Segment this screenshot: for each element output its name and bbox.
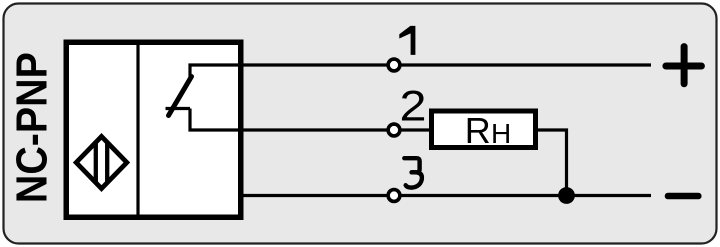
wire 3 right	[401, 194, 651, 197]
svg-text:NC-PNP: NC-PNP	[8, 52, 57, 203]
plus sign	[666, 47, 702, 84]
wire 1 left	[243, 63, 387, 66]
terminal 2	[388, 124, 400, 136]
sensor divider	[136, 42, 139, 217]
resistor RH body	[432, 111, 536, 148]
terminal 3	[388, 190, 400, 202]
svg-text:R: R	[465, 110, 491, 151]
wire 2 to resistor	[401, 128, 431, 131]
wire 3 left	[243, 194, 387, 197]
proximity sensor diamond	[76, 137, 127, 189]
svg-text:2: 2	[400, 83, 427, 131]
wire from resistor	[536, 130, 567, 196]
switch lower stub	[190, 109, 240, 131]
wire 1 right	[401, 63, 651, 66]
switch contact bar	[166, 107, 191, 110]
diamond inner line right	[105, 142, 109, 182]
switch upper stub	[190, 65, 240, 79]
svg-text:H: H	[491, 118, 511, 149]
wire 2 left	[243, 128, 387, 131]
junction dot	[558, 187, 575, 204]
terminal 1	[388, 59, 400, 71]
switch lever	[169, 77, 192, 116]
pin label 1	[399, 26, 415, 55]
diamond inner line left	[94, 143, 98, 182]
sensor body	[66, 42, 241, 217]
minus sign	[668, 193, 698, 200]
pin label 3	[404, 158, 422, 187]
